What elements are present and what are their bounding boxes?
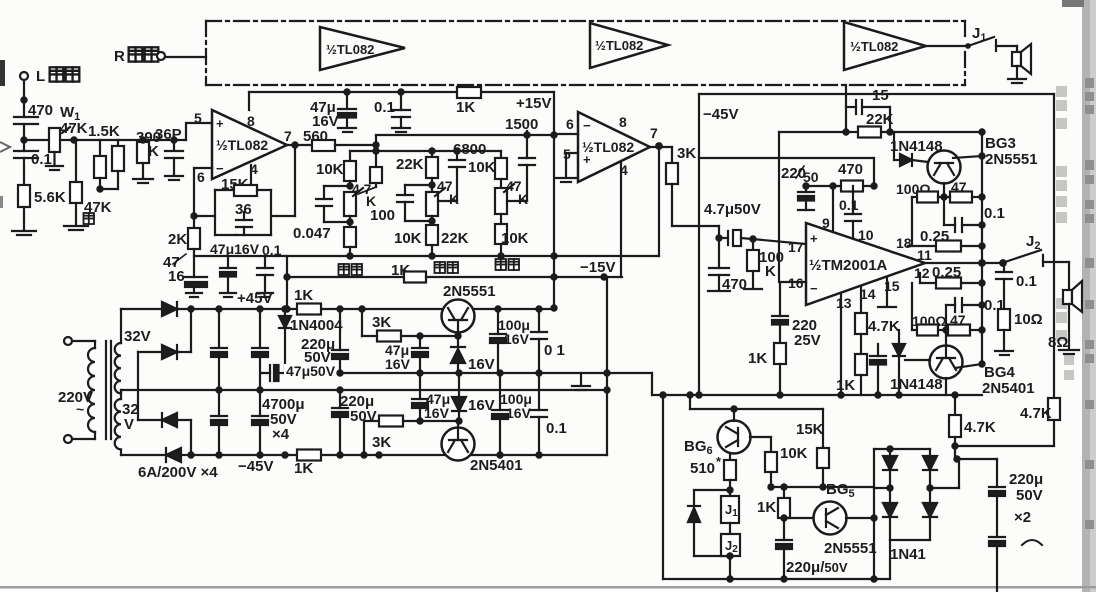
capacitor 1500 (505, 116, 538, 201)
resistor 100 ohm (BG3 emitter) (896, 181, 947, 203)
wire base row (y487) (771, 486, 874, 488)
capacitor 36 (feedback) (215, 201, 295, 235)
resistor 2K (168, 228, 200, 277)
svg-text:470: 470 (722, 276, 747, 293)
wire feedback row (779, 129, 982, 282)
transistor BG5 2N5551 (784, 481, 877, 557)
svg-text:16V: 16V (504, 331, 530, 347)
svg-text:7: 7 (284, 128, 292, 144)
svg-text:5.6K: 5.6K (34, 189, 66, 206)
svg-text:2N5551: 2N5551 (443, 283, 496, 300)
capacitor 470 (input to gnd) (708, 238, 747, 293)
bottom scan streak (0, 586, 1096, 589)
svg-text:11: 11 (917, 247, 932, 263)
svg-text:2N5401: 2N5401 (470, 457, 523, 474)
capacitor 100u16V (+15 out) (490, 309, 530, 373)
capacitor 47u50V (in 0V link) (262, 363, 338, 381)
capacitor 220u/50V (delay) (776, 540, 848, 582)
capacitor 0.1 (14, 151, 52, 185)
ground (input) (12, 231, 36, 235)
mid: resistor 22K (bottom) (426, 225, 469, 256)
terminal R input (114, 47, 206, 65)
svg-text:2N5551: 2N5551 (985, 151, 1038, 168)
capacitor 220u 50V (+reg input) (301, 309, 348, 373)
svg-text:−45V: −45V (238, 458, 273, 475)
resistor 390K (133, 129, 161, 183)
svg-text:4.7K: 4.7K (868, 318, 900, 335)
svg-text:4.7μ50V: 4.7μ50V (704, 201, 761, 218)
resistor 560 (303, 128, 376, 151)
scan arc artifact (1022, 540, 1042, 545)
resistor 3K (BG2 base) (364, 416, 462, 456)
svg-text:220μ: 220μ (1009, 471, 1043, 488)
bass: capacitor 0.047 (293, 186, 350, 242)
svg-text:1K: 1K (294, 460, 313, 477)
labels BG3 (985, 135, 1038, 168)
wire pin13 down (840, 293, 842, 395)
wire tone input bus (350, 135, 501, 167)
capacitor 0.1 (rail bypass) (374, 89, 410, 132)
resistor 3K (BG1 base) (362, 309, 461, 342)
svg-text:6: 6 (197, 169, 205, 185)
labels BG4 (982, 364, 1035, 397)
svg-text:0.1: 0.1 (546, 420, 567, 437)
resistor 1K (rail) (457, 87, 481, 98)
transistor BG3 2N5551 (928, 151, 983, 198)
wire TM output to rail (925, 262, 1003, 264)
capacitor 0.1 (U1 supply cluster) (257, 242, 282, 297)
wire 18/11 column (908, 197, 936, 246)
wire output sense to caps (954, 456, 997, 487)
svg-text:510: 510 (690, 460, 715, 477)
wire -15V regulator riser (604, 277, 609, 455)
svg-text:8: 8 (619, 114, 627, 130)
relay contact J1 (966, 25, 1017, 51)
svg-text:47μ16V: 47μ16V (210, 241, 260, 257)
resistor 5.6K (18, 185, 66, 230)
svg-text:1K: 1K (456, 99, 475, 116)
svg-text:10Ω: 10Ω (1014, 311, 1043, 328)
diode D1 (rectifier) (121, 302, 194, 316)
svg-text:×2: ×2 (1014, 509, 1031, 526)
svg-text:6: 6 (566, 116, 574, 132)
svg-text:8: 8 (247, 113, 255, 129)
bass: resistor 10K (bottom) (344, 227, 422, 256)
resistor 0.25 (upper) (920, 228, 982, 252)
resistor 100 ohm (BG4) (912, 283, 949, 336)
svg-text:15K: 15K (796, 421, 824, 438)
svg-text:10: 10 (858, 227, 874, 243)
op-amp T1 1/2TL082 (R channel) (320, 27, 405, 70)
diode 1N4148 (BG4 bias) (890, 330, 943, 395)
mid: potentiometer 47K (426, 178, 459, 225)
svg-text:470: 470 (838, 161, 863, 178)
speaker (R channel) (1008, 44, 1031, 83)
svg-text:10K: 10K (468, 159, 496, 176)
svg-text:+45V: +45V (237, 290, 272, 307)
terminal L input (20, 67, 79, 85)
bass: resistor (wiper feed) (358, 167, 382, 194)
capacitor 4700u #2 (211, 390, 227, 455)
svg-text:0 1: 0 1 (544, 342, 565, 359)
svg-text:+: + (583, 152, 591, 167)
svg-text:−15V: −15V (580, 259, 615, 276)
svg-text:25V: 25V (794, 332, 821, 349)
capacitor 47u16V (rail bypass) (310, 89, 356, 132)
relay coil J1 (721, 496, 739, 534)
capacitor 47u16V (U1 supply cluster) (210, 241, 260, 297)
wire +45V rail (191, 306, 554, 311)
svg-text:22K: 22K (396, 156, 424, 173)
svg-text:18: 18 (896, 235, 912, 251)
capacitor 220/50 (ripple) (781, 165, 819, 210)
wire U2 pin4 to -15V rail (620, 161, 622, 277)
transistor BG1 2N5551 (regulator +) (442, 300, 475, 337)
node A (input node) (21, 137, 26, 142)
resistor 47K (lower) (64, 140, 112, 230)
svg-text:BG4: BG4 (984, 364, 1016, 381)
resistor 47 (BG4) (938, 312, 982, 336)
wire TM bottom rail (652, 392, 982, 397)
svg-text:½TL082: ½TL082 (326, 42, 374, 57)
capacitor 4700u #1 (211, 309, 227, 390)
transistor BG2 2N5401 (regulator -) (442, 421, 475, 461)
resistor 4.7K (pin14) (855, 286, 900, 335)
svg-text:7: 7 (650, 125, 658, 141)
svg-text:0.1: 0.1 (839, 197, 859, 213)
svg-text:16V: 16V (468, 356, 495, 373)
capacitor 15 (feedback) (846, 85, 890, 132)
wire left riser to feedback 1K (284, 256, 289, 312)
svg-text:47K: 47K (60, 120, 88, 137)
wire pin8 up to +15V rail (248, 92, 250, 110)
svg-text:47μ50V: 47μ50V (286, 363, 336, 379)
svg-text:2K: 2K (168, 231, 187, 248)
wire D2/D3 feed (137, 352, 139, 420)
svg-text:1500: 1500 (505, 116, 538, 133)
resistor 1K (pin16) (748, 343, 786, 395)
svg-text:1K: 1K (294, 287, 313, 304)
svg-text:+15V: +15V (516, 95, 551, 112)
resistor 15K (feedback) (194, 176, 271, 235)
bass: resistor 10K (top) (316, 161, 356, 188)
svg-text:4.7K: 4.7K (1020, 405, 1052, 422)
wire pin16 network (772, 282, 821, 349)
svg-text:22K: 22K (441, 230, 469, 247)
svg-text:9: 9 (822, 215, 830, 231)
capacitor 4700u #3 (252, 309, 268, 390)
resistor 0.25 (lower) (920, 264, 982, 289)
svg-text:5: 5 (194, 110, 202, 126)
svg-text:32V: 32V (124, 328, 151, 345)
labels tone bands (339, 259, 520, 279)
transistor BG6 (684, 409, 751, 457)
svg-text:13: 13 (836, 295, 852, 311)
resistor 470 (bias row) (838, 161, 863, 192)
op-amp T3 1/2TL082 (R channel) (844, 22, 926, 70)
svg-text:×4: ×4 (272, 426, 290, 443)
resistor 100K (input bias) (744, 239, 784, 289)
svg-text:K: K (765, 263, 776, 280)
svg-text:R: R (114, 48, 125, 65)
capacitor 0.1 (BG3) (944, 197, 1005, 232)
wire pin4 down (250, 165, 252, 190)
transistor BG4 2N5401 (905, 330, 982, 395)
wire protection left rail (660, 392, 665, 579)
wire L input down (23, 80, 25, 117)
wire pin15 stub (878, 277, 896, 307)
wire U2 output node (650, 143, 672, 149)
wire bus up to op-amp1 pin5 (186, 123, 212, 140)
capacitor 36P (140, 126, 183, 180)
wire 0V centre rail (121, 387, 610, 392)
capacitor 47u16V (BG1 base) (385, 336, 428, 373)
ground (mid rail) (572, 373, 590, 390)
svg-text:BG3: BG3 (985, 135, 1016, 152)
wire pin6 left and down (194, 168, 212, 228)
svg-text:8Ω: 8Ω (1048, 334, 1068, 351)
resistor 510* (BG6 emitter) (690, 453, 736, 496)
label 4700u 50V x4 (262, 396, 305, 443)
svg-text:3K: 3K (372, 434, 391, 451)
resistor 1.5K (88, 123, 120, 189)
potentiometer W1 47K (46, 104, 88, 170)
svg-text:K: K (518, 191, 528, 207)
wire riser tone-rail to U2 output (658, 145, 660, 256)
svg-text:2N5401: 2N5401 (982, 380, 1035, 397)
wire node A to W1 and pin bus (24, 139, 186, 141)
diode 1N4004 (279, 309, 343, 368)
capacitor 47u16V (BG2 base) (412, 373, 450, 424)
svg-text:3K: 3K (677, 145, 696, 162)
svg-text:+: + (216, 116, 224, 131)
svg-text:½TL082: ½TL082 (850, 39, 898, 54)
wire tone bottom rail (194, 253, 659, 258)
op-amp U3 1/2TM2001A (788, 215, 932, 311)
wire -15V distribution line (287, 272, 622, 283)
transformer secondary 32V (lower) (115, 390, 139, 455)
resistor 1K (+45 to BG1) (294, 287, 321, 315)
resistor 47 (BG3 out) (938, 179, 982, 203)
capacitor 0.1 (pin10) (839, 186, 861, 238)
svg-text:0.1: 0.1 (1016, 273, 1037, 290)
svg-text:L: L (36, 68, 45, 85)
svg-text:1K: 1K (757, 499, 776, 516)
wire U2 pin5 to ground (556, 153, 578, 182)
svg-text:½TL082: ½TL082 (216, 137, 268, 153)
transformer T (220V primary) (58, 337, 111, 443)
capacitor 0.1 (+15 out) (531, 309, 565, 373)
diode D4 (rectifier) (121, 448, 194, 462)
capacitor 220u 50V #2 (989, 537, 1005, 592)
svg-text:1N4004: 1N4004 (290, 317, 343, 334)
capacitor 4700u #4 (252, 390, 268, 455)
capacitor (pin14 bypass) (870, 344, 886, 395)
svg-text:17: 17 (788, 239, 804, 255)
svg-text:220μ/50V: 220μ/50V (786, 559, 848, 576)
label bass (339, 264, 350, 275)
svg-text:1K: 1K (836, 377, 855, 394)
mid: capacitor 100 (370, 185, 432, 224)
capacitor 0.1 (zobel) (996, 263, 1037, 309)
svg-text:0.047: 0.047 (293, 225, 331, 242)
treble: resistor 10K (bottom) (495, 224, 529, 256)
wire bottom rail (protection) (663, 578, 890, 580)
svg-text:~: ~ (76, 401, 84, 417)
diode D3 (rectifier) (138, 413, 191, 455)
svg-text:−: − (216, 161, 224, 176)
svg-text:0.1: 0.1 (984, 205, 1005, 222)
svg-text:50V: 50V (1016, 487, 1043, 504)
zener 16V (+15 ref) (451, 336, 495, 373)
capacitor 470 (coupling) (14, 102, 53, 151)
svg-text:12: 12 (914, 265, 930, 281)
svg-text:16V: 16V (385, 356, 411, 372)
lower half: capacitor 220u50V (-reg input) (332, 387, 377, 457)
left edge stray cut glyphs (0, 60, 5, 86)
capacitor 0.1 (-15 out) (531, 373, 567, 455)
resistor (series, unlabelled) (97, 140, 124, 192)
svg-text:−: − (583, 118, 591, 133)
dashed box (R channel) (206, 21, 965, 85)
capacitor 220u 50V #1 (989, 471, 1043, 537)
resistor 1K (-45 to BG2) (294, 450, 321, 478)
svg-text:16V: 16V (506, 405, 532, 421)
relay coil J2 (721, 534, 740, 582)
svg-text:100: 100 (370, 207, 395, 224)
svg-text:16: 16 (168, 268, 185, 285)
op-amp T2 1/2TL082 (R channel) (590, 23, 668, 68)
diode 1N4148 (BG3 bias) (890, 132, 943, 166)
svg-text:−45V: −45V (703, 106, 738, 123)
label treble (496, 259, 507, 270)
svg-text:1N41: 1N41 (890, 546, 926, 563)
faint neighbour-page text blobs (1085, 78, 1094, 529)
wire mid-rail step to protection rail (651, 373, 653, 395)
wire mid regulator rail (262, 370, 652, 375)
speaker 8 ohm (1048, 262, 1082, 354)
capacitor 100u16V (-15 out) (492, 373, 532, 455)
wire -45V rail (191, 452, 607, 457)
treble: potentiometer 47K (495, 178, 528, 224)
diode bridge 1N4148 x4 (874, 446, 959, 579)
wire U2 pin6 input (554, 133, 578, 135)
resistor 15K (796, 409, 829, 490)
resistor 22K (feedback) (858, 111, 894, 138)
wire riser tone-rail to +45 rail (551, 92, 556, 311)
svg-text:10K: 10K (316, 161, 344, 178)
svg-text:6A/200V ×4: 6A/200V ×4 (138, 464, 218, 481)
zener 16V (-15 ref) (452, 373, 495, 421)
wire pin9 bias row (803, 158, 876, 232)
svg-text:36P: 36P (155, 126, 182, 143)
svg-text:16V: 16V (468, 397, 495, 414)
wire +15V rail (249, 91, 554, 93)
svg-text:½TL082: ½TL082 (595, 38, 643, 53)
svg-text:−: − (810, 281, 818, 296)
bass: potentiometer 4.7K (344, 181, 376, 227)
svg-text:1.5K: 1.5K (88, 123, 120, 140)
svg-text:K: K (449, 191, 459, 207)
wire output column (979, 129, 985, 366)
svg-text:10K: 10K (501, 230, 529, 247)
capacitor 47/16 (163, 254, 207, 297)
svg-text:½TM2001A: ½TM2001A (809, 257, 888, 274)
capacitor 4.7u50V (input coupling) (704, 201, 806, 246)
wire T3 output to J1 (926, 45, 967, 47)
svg-text:V: V (124, 416, 134, 433)
resistor 1K (BG5 base) (757, 484, 790, 540)
capacitor 0.1 (BG4) (946, 297, 1005, 330)
resistor 10 ohm (zobel) (995, 309, 1043, 355)
svg-text:0.1: 0.1 (374, 99, 395, 116)
svg-text:14: 14 (860, 286, 876, 302)
resistor 10K (BG6 base) (750, 437, 808, 490)
relay contact J2 (1000, 233, 1069, 266)
diode D2 (rectifier) (138, 309, 191, 359)
label mid (435, 262, 446, 273)
capacitor 6800 (449, 141, 486, 201)
svg-text:10K: 10K (394, 230, 422, 247)
svg-text:4.7K: 4.7K (964, 419, 996, 436)
svg-text:10K: 10K (780, 445, 808, 462)
wire BG6 collector row (687, 392, 823, 411)
resistor 4.7K (right rail) (1020, 398, 1060, 446)
transformer secondary 32V (upper) (115, 309, 151, 393)
mid: resistor 22K (top) (396, 148, 438, 192)
svg-text:+: + (810, 231, 818, 246)
svg-text:2N5551: 2N5551 (824, 540, 877, 557)
output node op1 (292, 142, 297, 147)
treble: resistor 10K (top) (468, 158, 507, 188)
wire top right rail (699, 94, 1054, 398)
resistor 4.7K (to protection) (949, 395, 1054, 459)
svg-text:15: 15 (872, 87, 889, 104)
wire bridge feed column (871, 487, 876, 582)
top-right corner mark (1062, 0, 1084, 7)
svg-text:1K: 1K (748, 350, 767, 367)
diode (relay clamp) (688, 490, 730, 556)
wire TM input feed line (699, 157, 874, 159)
right page-edge grey band (1082, 0, 1096, 592)
resistor 3K (U2 output) (666, 145, 719, 238)
svg-text:3K: 3K (372, 314, 391, 331)
resistor 1K (pin14 lower) (836, 334, 867, 395)
wire tone feedback line (to U2 pin6) (376, 132, 554, 137)
svg-text:1N4148: 1N4148 (890, 376, 943, 393)
